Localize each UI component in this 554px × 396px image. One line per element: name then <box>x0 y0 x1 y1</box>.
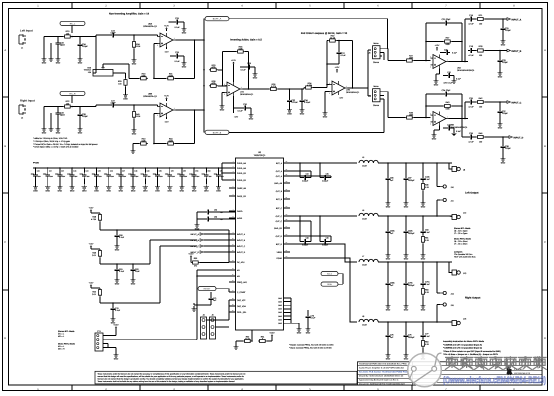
wire U7A output <box>243 88 249 90</box>
svg-text:GND: GND <box>94 190 99 193</box>
capacitor C46 PVDD bank <box>108 168 110 173</box>
svg-text:*Pin Sandale 100 Grn: *Pin Sandale 100 Grn <box>454 253 472 256</box>
svg-text:M1 = L: M1 = L <box>58 333 65 336</box>
svg-text:GND: GND <box>386 358 391 361</box>
svg-text:GND: GND <box>216 190 221 193</box>
svg-text:OPA1662A-Q1: OPA1662A-Q1 <box>143 25 158 28</box>
resistor R50 <box>98 288 101 297</box>
op-amp U6B <box>430 112 449 126</box>
+12V R49 <box>90 247 92 249</box>
resistor R36 <box>269 87 278 90</box>
header J5 osc <box>210 317 216 339</box>
svg-text:* C64/R45 and C67 not populate: * C64/R45 and C67 not populated (Input A… <box>443 343 482 346</box>
svg-text:* Master: Connect FREQ_ADJ wit: * Master: Connect FREQ_ADJ with 10 kOhm … <box>289 344 334 347</box>
svg-text:C20 22pF: C20 22pF <box>442 18 452 21</box>
svg-text:* Cinch input: 0dBu = 2.2Vrp -: * Cinch input: 0dBu = 2.2Vrp -> Gain of … <box>33 146 78 149</box>
zone ticks top <box>71 2 73 8</box>
svg-text:INPUT_C: INPUT_C <box>237 245 246 248</box>
svg-text:GND: GND <box>56 62 61 65</box>
svg-text:AVDD: AVDD <box>237 217 243 220</box>
resistor R32 12.1k top feedback <box>328 39 337 42</box>
wire lowpass out to jumpers <box>367 50 369 88</box>
svg-text:GND: GND <box>131 283 136 286</box>
svg-text:PVDD_AB: PVDD_AB <box>237 162 247 165</box>
wire inverting input U5B <box>153 113 155 143</box>
svg-text:Stereo: Stereo <box>373 61 380 64</box>
capacitor C71b snubber <box>422 262 424 281</box>
net label BUFF_A <box>205 17 229 21</box>
svg-text:GND: GND <box>306 332 311 335</box>
resistor R24 <box>132 40 135 49</box>
svg-text:0.1uF: 0.1uF <box>174 26 180 29</box>
wire U6B out <box>449 118 463 120</box>
header CT1 mode <box>95 333 103 351</box>
svg-text:GND: GND <box>421 206 426 209</box>
wire R40 left <box>133 143 139 145</box>
ground C43 <box>71 179 73 185</box>
wire BUFF_A to jumper J6 <box>229 18 388 20</box>
svg-text:GND: GND <box>78 132 83 135</box>
wire U6B to row D <box>461 119 463 138</box>
capacitor C32 0.22uF <box>289 89 291 98</box>
ground C24 <box>79 48 81 56</box>
svg-text:INPUT_A: INPUT_A <box>237 233 246 236</box>
capacitor C41 PVDD bank <box>47 168 49 173</box>
svg-text:D: D <box>544 337 546 340</box>
svg-text:GND: GND <box>182 66 187 69</box>
wire U6A out up to row A <box>464 19 466 62</box>
svg-text:100pF: 100pF <box>502 61 508 64</box>
zone ticks bottom <box>71 385 73 391</box>
svg-text:RC_L: RC_L <box>70 22 76 25</box>
wire M2 branch <box>197 275 229 277</box>
svg-text:J8 - J12 = Short: J8 - J12 = Short <box>454 240 468 243</box>
capacitor C38 100pF row D <box>502 137 504 144</box>
svg-text:102k: 102k <box>141 140 145 143</box>
resistor R41 <box>132 110 135 119</box>
svg-text:4.7uF: 4.7uF <box>110 102 116 105</box>
svg-text:GND: GND <box>82 190 87 193</box>
svg-text:GND: GND <box>220 109 225 112</box>
wire GND cluster join <box>290 298 292 323</box>
svg-text:1000pF: 1000pF <box>408 336 415 339</box>
svg-text:OPA1662AIDGKQ1: OPA1662AIDGKQ1 <box>457 69 475 72</box>
svg-text:OVRE_AB: OVRE_AB <box>237 187 247 190</box>
svg-text:-12V: -12V <box>164 121 169 124</box>
ground C49 <box>144 179 146 185</box>
-12V U5A <box>166 47 168 49</box>
wire inverting input U5A <box>153 43 155 78</box>
ground C61 <box>116 273 118 277</box>
svg-text:GND: GND <box>498 127 503 130</box>
resistor R31 <box>166 77 175 80</box>
svg-text:12.1k: 12.1k <box>330 37 335 40</box>
ground C67 <box>405 182 407 200</box>
wire J7 out <box>380 91 388 93</box>
ground C62b <box>405 235 407 252</box>
ground R54 <box>422 348 424 352</box>
svg-text:* Thread RCA: Gain = 26.5k / 1: * Thread RCA: Gain = 26.5k / 1k = 7.6Vrp… <box>33 143 98 146</box>
net arrow INPUT_A <box>507 18 510 21</box>
svg-text:C65: C65 <box>326 172 329 175</box>
inductor L8 output filter <box>359 319 378 322</box>
capacitor C17 supply U6A <box>444 50 450 55</box>
svg-text:GND: GND <box>253 77 258 80</box>
svg-text:0.1uF: 0.1uF <box>425 178 431 181</box>
connector J12 output <box>452 215 460 220</box>
svg-text:GND: GND <box>167 190 172 193</box>
op-amp U5A <box>157 33 176 47</box>
svg-text:0.1uF: 0.1uF <box>115 309 121 312</box>
ground C38 <box>502 150 504 156</box>
resistor R52 pullup <box>191 261 200 264</box>
svg-text:+12V: +12V <box>164 95 169 98</box>
svg-text:R52: R52 <box>194 257 197 260</box>
ground C44 <box>83 179 85 185</box>
capacitor C62b filter <box>405 216 407 229</box>
svg-text:243k: 243k <box>169 140 173 143</box>
ground C34 <box>301 104 303 107</box>
svg-text:DVSS_CD: DVSS_CD <box>237 195 247 198</box>
capacitor C15 supply U6A <box>446 73 452 78</box>
capacitor C54 PVDD bank <box>205 168 207 173</box>
svg-text:GND: GND <box>498 76 503 79</box>
ground U7A noninv <box>222 91 225 93</box>
svg-text:* Place 0 Ohm resistor on pad: * Place 0 Ohm resistor on pad C67 (Input… <box>443 350 501 353</box>
capacitor C42 PVDD bank <box>59 168 61 173</box>
svg-text:100k: 100k <box>409 114 413 117</box>
+12V R48 <box>90 211 92 213</box>
watermark chinese characters gray <box>445 357 458 370</box>
capacitor C68 bst2 <box>302 239 308 244</box>
svg-text:0.22: 0.22 <box>425 291 429 294</box>
svg-text:OPA1662A-Q1: OPA1662A-Q1 <box>240 93 254 96</box>
wire C56 to U8 <box>211 211 236 213</box>
svg-text:0.1uF: 0.1uF <box>237 110 243 113</box>
op-amp U7A <box>224 82 243 96</box>
svg-text:OUT_A: OUT_A <box>276 170 283 173</box>
wire to R41 <box>116 104 134 106</box>
capacitor C37 100pF row C <box>499 102 501 109</box>
svg-text:C58: C58 <box>214 216 217 219</box>
svg-text:SDIN: SDIN <box>327 283 332 286</box>
svg-text:GND: GND <box>131 190 136 193</box>
capacitor C66 filter <box>387 163 389 176</box>
svg-text:4.7uF: 4.7uF <box>468 23 474 26</box>
resistor R39 100k <box>405 116 414 119</box>
svg-text:D: D <box>4 337 6 340</box>
svg-text:VREG: VREG <box>277 251 283 254</box>
svg-text:Drawn By: WJS Checked: 10/26/: Drawn By: WJS Checked: 10/26/2010 Sheet … <box>359 375 404 378</box>
capacitor C67 filter <box>405 163 407 176</box>
svg-text:C64: C64 <box>306 172 309 175</box>
wire bst row2 <box>290 227 357 229</box>
ground C69b <box>387 287 389 303</box>
TI logo texas map <box>506 367 512 376</box>
svg-text:INPUT_B: INPUT_B <box>191 239 200 242</box>
ground C62 <box>132 273 134 277</box>
inductor L7 output filter <box>359 259 378 262</box>
svg-text:GND: GND <box>404 309 409 312</box>
svg-text:GND: GND <box>434 84 439 87</box>
svg-text:GND: GND <box>33 190 38 193</box>
svg-text:100pF: 100pF <box>505 147 511 150</box>
wire R62 junction up <box>251 330 253 341</box>
svg-text:GND: GND <box>204 190 209 193</box>
svg-text:TAS5731Q1: TAS5731Q1 <box>254 154 267 157</box>
watermark small circle right <box>432 366 437 371</box>
svg-text:100pF: 100pF <box>82 45 88 48</box>
resistor R33 402k <box>209 68 218 71</box>
svg-text:Rev./ECN: PCB Number TAS5731EV: Rev./ECN: PCB Number TAS5731EVM2 PWBD PA… <box>359 371 409 374</box>
svg-text:M1: M1 <box>237 269 240 272</box>
svg-text:+3.3V: +3.3V <box>188 253 194 256</box>
svg-text:100k: 100k <box>409 57 413 60</box>
capacitor C49 PVDD bank <box>144 168 146 173</box>
svg-text:0.1uF: 0.1uF <box>425 283 431 286</box>
ground U6B <box>439 126 441 131</box>
ground U8 cluster <box>296 326 301 331</box>
svg-text:C: C <box>4 241 6 244</box>
svg-text:4.7uF: 4.7uF <box>468 54 474 57</box>
wire to U7A inv input <box>223 85 225 87</box>
svg-text:GND: GND <box>132 63 137 66</box>
wire J14 stub <box>437 292 440 294</box>
inductor L6 output filter <box>359 213 378 216</box>
capacitor C34 0.15uF <box>301 89 303 98</box>
ground R53 <box>422 296 424 303</box>
svg-text:Right Output: Right Output <box>465 297 480 300</box>
wire M1 wire long <box>196 270 198 340</box>
capacitor C19 series row A <box>468 17 474 22</box>
wire mode header vdd <box>103 335 116 337</box>
zone ticks right <box>542 96 548 98</box>
capacitor C51 PVDD bank <box>169 168 171 173</box>
svg-text:+12V: +12V <box>89 282 94 285</box>
svg-text:OUT_C: OUT_C <box>276 215 283 218</box>
wire RESET <box>216 288 229 290</box>
ground R24 <box>133 49 135 57</box>
svg-text:OPA1662A-Q1: OPA1662A-Q1 <box>346 91 360 94</box>
svg-text:10uH: 10uH <box>362 165 367 168</box>
resistor R38 402k <box>209 84 218 87</box>
svg-text:C23: C23 <box>444 49 447 52</box>
svg-text:OUT_D: OUT_D <box>276 235 283 238</box>
wire row B to INPUT_B <box>485 50 507 52</box>
svg-text:GND: GND <box>180 190 185 193</box>
svg-text:GND: GND <box>287 113 292 116</box>
svg-text:+12V: +12V <box>231 59 236 62</box>
resistor R62 <box>243 339 252 342</box>
wire pot right to R29 <box>113 72 126 74</box>
capacitor C26 supply <box>167 55 175 57</box>
capacitor C18 series row B <box>468 48 474 53</box>
svg-text:GND: GND <box>123 98 128 101</box>
connector J8 output <box>449 163 452 169</box>
wire PVDD to IC pins <box>221 163 223 168</box>
svg-text:Assembly Instruction for Mono: Assembly Instruction for Mono PBTL Mode <box>443 340 485 343</box>
ground C76 <box>405 339 407 352</box>
ground C40 <box>35 179 37 185</box>
capacitor C23 open <box>57 37 59 41</box>
svg-text:110k: 110k <box>136 115 140 118</box>
svg-text:C16: C16 <box>447 124 450 127</box>
capacitor C52 PVDD bank <box>181 168 183 173</box>
svg-text:DC_ADJ: DC_ADJ <box>237 261 244 264</box>
wire J10 stub <box>437 186 440 188</box>
capacitor C50 PVDD bank <box>157 168 159 173</box>
+12V U5A <box>166 29 168 31</box>
resistor R30 <box>139 77 148 80</box>
svg-text:PVDD_CD: PVDD_CD <box>237 172 247 175</box>
+12V U6A <box>436 48 438 50</box>
svg-text:C24 22pF: C24 22pF <box>442 89 452 92</box>
svg-text:GND: GND <box>195 228 200 231</box>
connector J10 <box>440 185 446 188</box>
svg-text:J7 - J11 = Short: J7 - J11 = Short <box>454 243 468 246</box>
resistor R20 <box>63 35 72 38</box>
wire R64 to +3.3V <box>267 340 272 342</box>
op-amp U7B <box>329 81 348 95</box>
svg-text:4.7uF: 4.7uF <box>468 106 474 109</box>
svg-text:RC_R: RC_R <box>70 92 76 95</box>
wire J6 out <box>380 48 388 50</box>
+3.3V R64 <box>271 336 273 338</box>
capacitor C73 0.1uF <box>291 313 307 315</box>
svg-text:-12V: -12V <box>234 115 239 118</box>
svg-text:OPA1662A-Q1: OPA1662A-Q1 <box>143 95 158 98</box>
svg-text:10uH: 10uH <box>362 218 367 221</box>
svg-text:0.1uF: 0.1uF <box>425 231 431 234</box>
capacitor C65 bst <box>322 175 328 180</box>
wire feedback U5B <box>194 110 196 144</box>
net arrow INPUT_B <box>507 49 510 52</box>
svg-text:Document: AB5731EVM File TAS5: Document: AB5731EVM File TAS5731EVM2.SCH <box>359 382 405 385</box>
wire adder out rail <box>278 88 304 90</box>
svg-text:GND: GND <box>404 258 409 261</box>
ground C48 <box>132 179 134 185</box>
svg-text:Left Input: Left Input <box>20 29 33 33</box>
svg-text:DVDD: DVDD <box>237 210 243 213</box>
svg-text:0.15uF: 0.15uF <box>304 101 311 104</box>
wire pills to U8 <box>338 273 343 275</box>
+12V U7A <box>233 63 235 65</box>
ground C71 <box>210 302 212 305</box>
svg-text:M2 = L: M2 = L <box>58 335 65 338</box>
resistor R28 row B <box>476 49 485 52</box>
capacitor C35 series row C <box>468 100 474 105</box>
svg-text:0.1uF: 0.1uF <box>456 130 462 133</box>
svg-text:GND: GND <box>42 132 47 135</box>
watermark diagonal slash <box>413 353 442 383</box>
capacitor C20 22pF feedback <box>443 21 449 26</box>
capacitor C40 PVDD bank <box>35 168 37 173</box>
resistor R45 snubber <box>421 182 424 191</box>
svg-text:GND: GND <box>297 332 302 335</box>
svg-text:OUT_A: OUT_A <box>276 175 283 178</box>
title block table <box>358 362 543 385</box>
ground C54 <box>205 179 207 185</box>
ground R45 <box>422 191 424 200</box>
wire out row4 <box>290 258 357 322</box>
ground C53 <box>193 179 195 185</box>
op-amp U6A <box>430 55 449 69</box>
svg-text:A: A <box>4 49 6 52</box>
svg-text:PVDD: PVDD <box>33 162 39 165</box>
header J4 osc <box>201 317 207 339</box>
svg-text:243k: 243k <box>169 74 173 77</box>
resistor R35 feedback <box>236 50 245 53</box>
capacitor C58 AVDD <box>205 217 211 222</box>
wire U6A out <box>449 61 463 63</box>
svg-text:4.7uF: 4.7uF <box>468 141 474 144</box>
connector J14 <box>440 291 446 294</box>
svg-text:TiDi+ with 4x40 Ohm BxC: TiDi+ with 4x40 Ohm BxC <box>454 256 476 259</box>
svg-text:Open: Open <box>60 44 65 47</box>
potentiometer R26 trimmer <box>93 70 113 77</box>
capacitor C28b 100pF <box>79 107 81 113</box>
capacitor C64 bst <box>302 175 308 180</box>
ground C28b <box>79 118 81 126</box>
watermark slash stub lower left <box>409 369 414 380</box>
svg-text:C15: C15 <box>447 71 450 74</box>
net label RESET pill <box>198 287 216 291</box>
ground R41 <box>133 119 135 127</box>
svg-text:GND: GND <box>432 138 437 141</box>
ground C21 <box>57 117 59 127</box>
capacitor C43 PVDD bank <box>71 168 73 173</box>
capacitor C27 feedback <box>337 50 342 56</box>
svg-text:GND: GND <box>421 309 426 312</box>
+3.3V mode header <box>115 328 117 330</box>
connector J15 <box>440 303 446 306</box>
svg-text:INPUT_C: INPUT_C <box>512 101 522 104</box>
resistor R29 <box>124 78 127 87</box>
svg-text:RESET: RESET <box>204 288 211 291</box>
capacitor C27b series <box>95 105 97 107</box>
capacitor C22 series <box>95 35 97 37</box>
wire PVDD rail <box>33 167 222 169</box>
wire R30 to gnd pot <box>129 77 139 79</box>
capacitor C44b snubber <box>422 163 424 176</box>
ground R51 <box>422 244 424 252</box>
svg-text:GND: GND <box>421 258 426 261</box>
ground U6A <box>439 69 441 75</box>
ground C45 <box>96 179 98 185</box>
svg-text:J8 - J12 = Open: J8 - J12 = Open <box>454 230 468 233</box>
svg-text:0.1uF: 0.1uF <box>119 270 125 273</box>
svg-text:GND: GND <box>78 62 83 65</box>
svg-text:4.53k: 4.53k <box>307 84 312 87</box>
ground U7B noninv <box>325 90 330 92</box>
svg-text:* 170mVp 4 Ohm, 26.5k Vrp -> 1: * 170mVp 4 Ohm, 26.5k Vrp -> 17Vp gain <box>33 140 70 143</box>
svg-text:OPA1662AIDGKQ1: OPA1662AIDGKQ1 <box>450 126 468 129</box>
svg-text:27k: 27k <box>194 264 197 267</box>
svg-text:Stereo BTL Mode: Stereo BTL Mode <box>454 227 471 230</box>
capacitor C60b filter <box>387 216 389 229</box>
svg-text:GND: GND <box>56 132 61 135</box>
net label SCLK pill <box>321 272 338 276</box>
svg-text:100k: 100k <box>445 43 449 46</box>
svg-text:0.1uF: 0.1uF <box>110 32 116 35</box>
svg-text:SCLK: SCLK <box>327 273 333 276</box>
svg-text:INPUT_D: INPUT_D <box>237 251 246 254</box>
svg-text:Mono: Mono <box>373 42 379 45</box>
ground C15 <box>452 75 454 77</box>
ground C25 <box>180 21 184 23</box>
+12V U7B <box>336 70 338 72</box>
svg-text:GND: GND <box>106 190 111 193</box>
